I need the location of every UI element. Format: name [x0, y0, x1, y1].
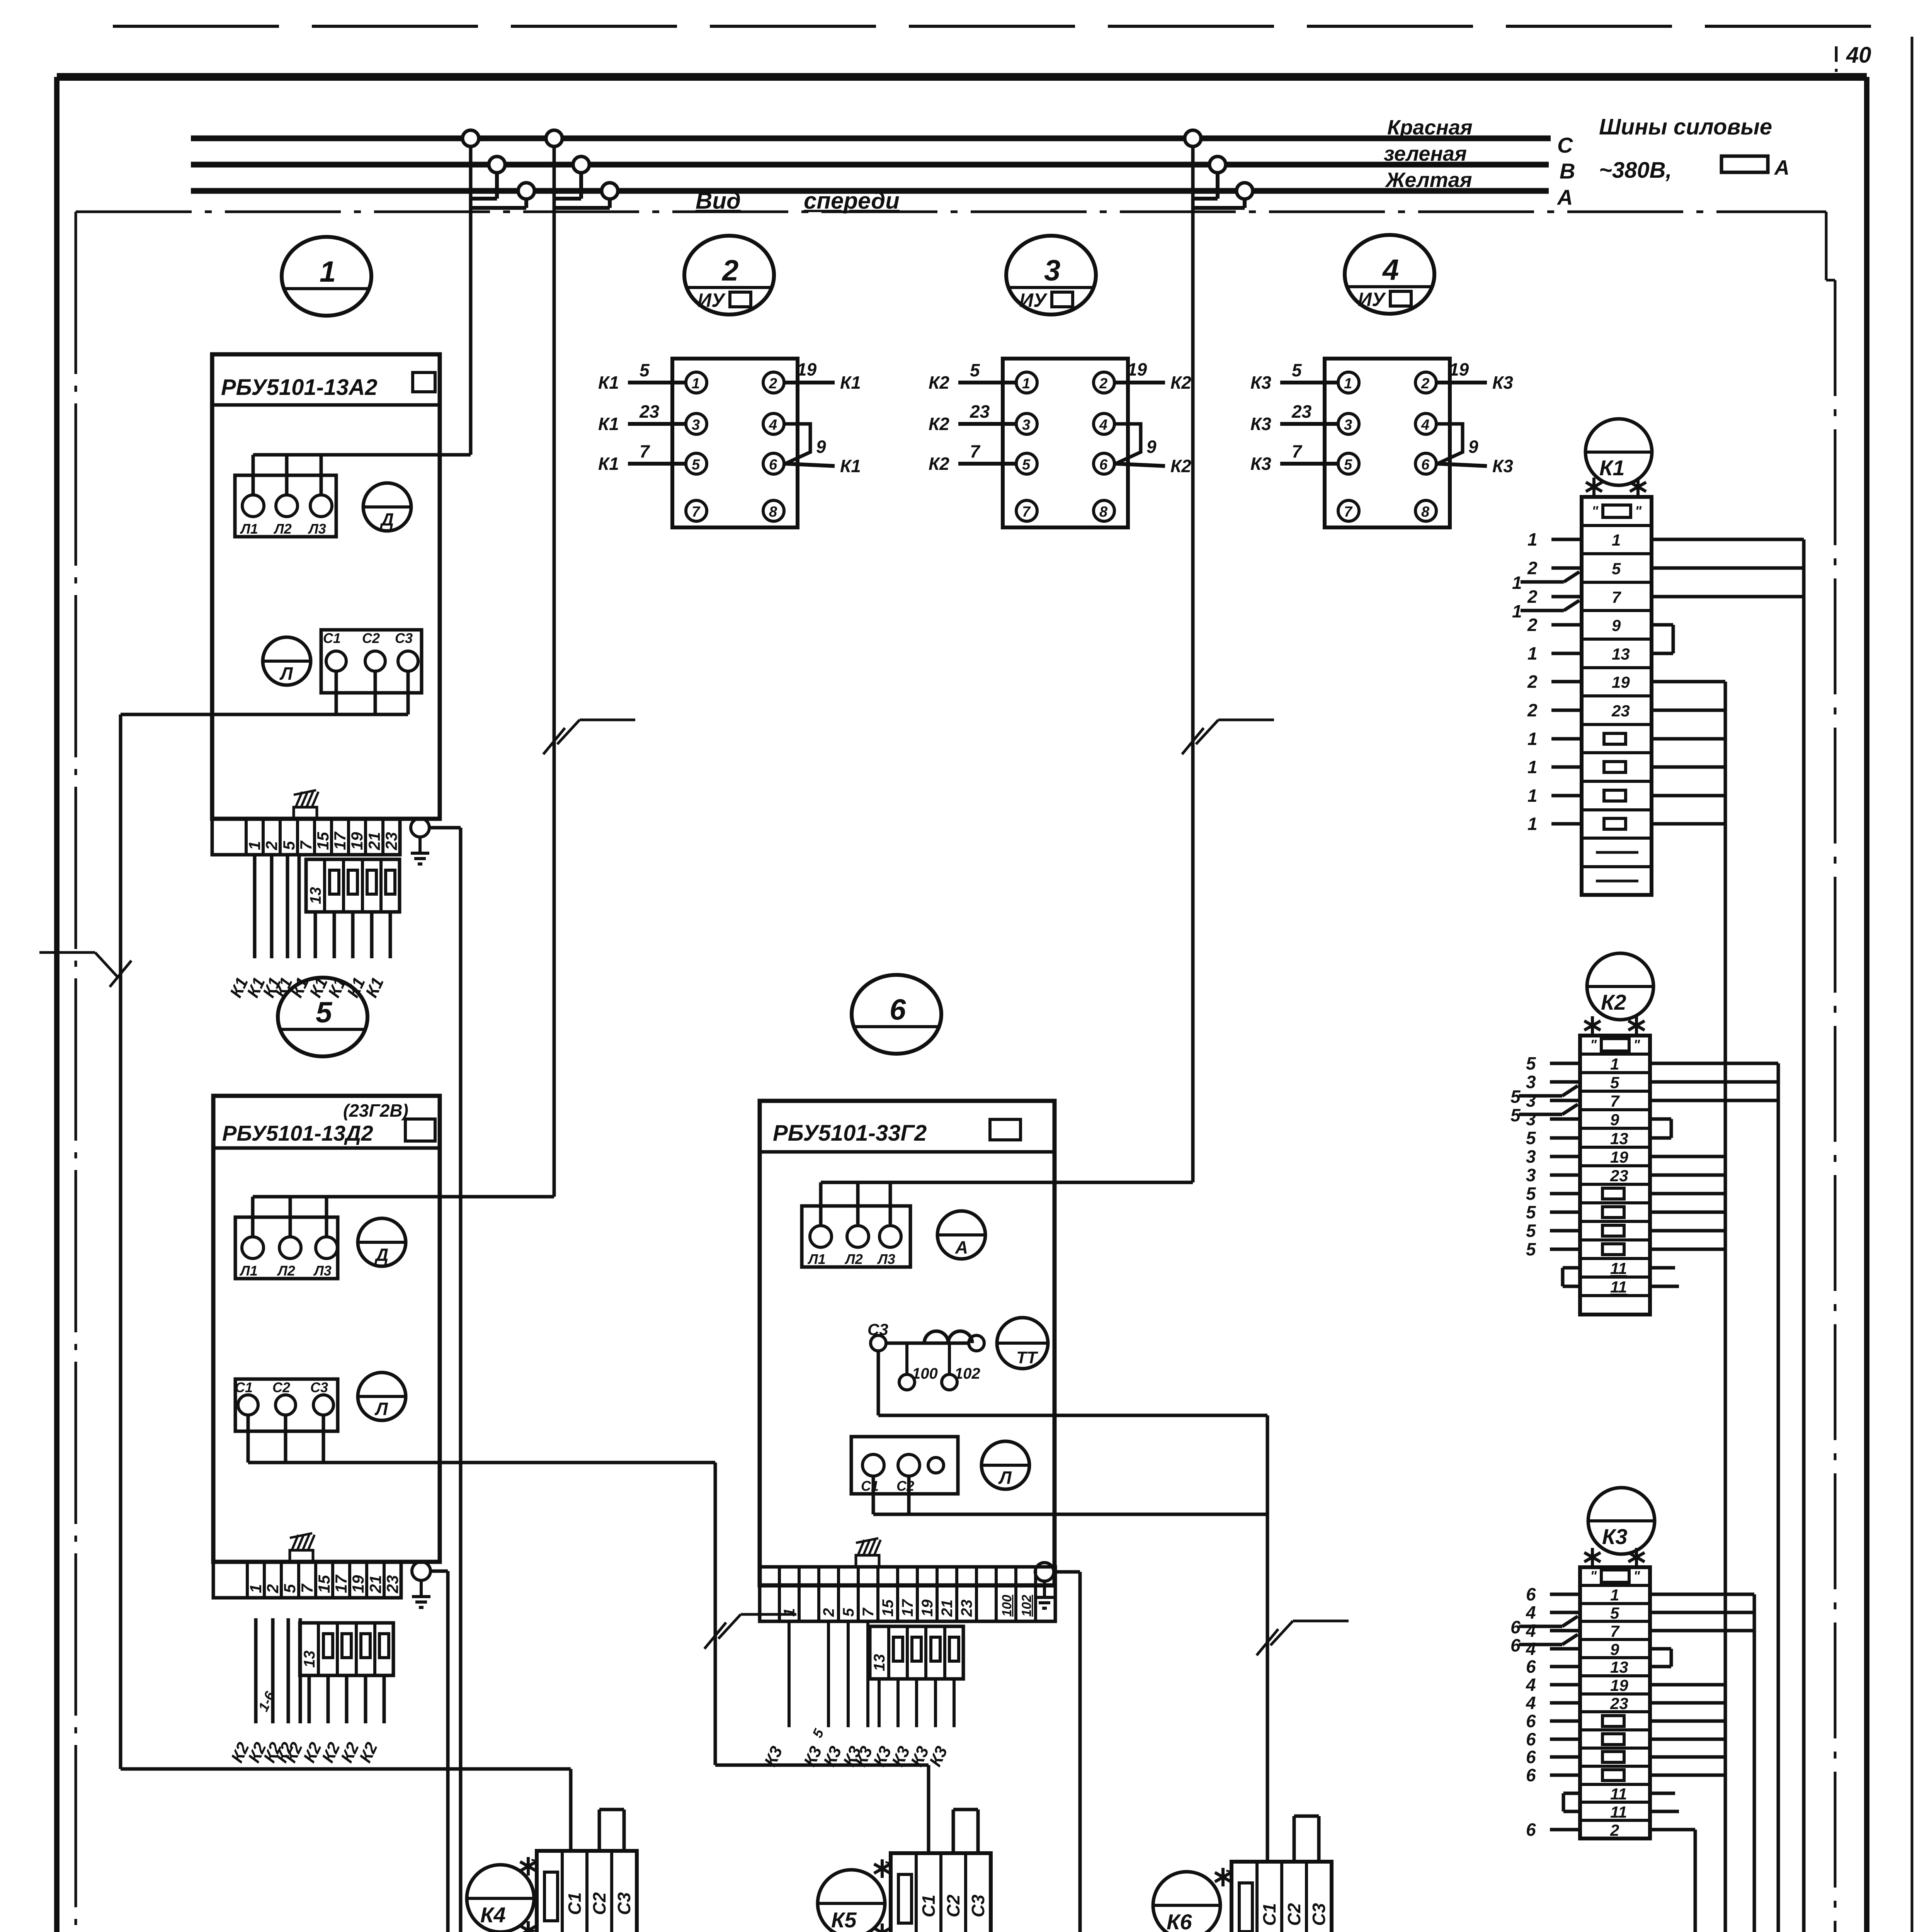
pin 2: [1415, 372, 1436, 393]
wire to pin 3 from К1: [598, 401, 686, 434]
svg-text:4: 4: [1421, 417, 1429, 433]
svg-text:А: А: [1774, 156, 1789, 179]
riser: К3 rows 1,5,7 down to junction box 1: [1609, 1594, 1754, 1932]
terminal block of К4: [529, 1851, 637, 1932]
svg-text:3: 3: [1044, 254, 1060, 287]
svg-text:23: 23: [1610, 1694, 1628, 1713]
label: РБУ5101-33Г2: [773, 1119, 1021, 1146]
cable marker on K6 riser: [1257, 1621, 1349, 1655]
svg-text:6: 6: [1526, 1584, 1536, 1604]
svg-text:К2: К2: [1170, 372, 1191, 393]
svg-text:1: 1: [1612, 531, 1621, 549]
svg-text:19: 19: [1127, 359, 1147, 379]
pin 5: [686, 453, 707, 474]
svg-text:3: 3: [1526, 1165, 1536, 1185]
svg-text:23: 23: [1291, 401, 1312, 422]
svg-text:11: 11: [1610, 1785, 1627, 1803]
svg-text:4: 4: [769, 417, 777, 433]
svg-text:К2: К2: [929, 414, 949, 434]
svg-text:6: 6: [1526, 1765, 1536, 1785]
incoming cable core numbers of К1: [1527, 529, 1582, 834]
pin 4: [1094, 413, 1114, 434]
wire: C-side bus of block U5 to K5 riser: [248, 1416, 715, 1463]
earth terminal of block U5: [412, 1562, 430, 1607]
svg-text:19: 19: [348, 832, 366, 850]
panel outline (dash-dot) top: [76, 211, 1826, 213]
svg-text:1: 1: [320, 255, 336, 288]
wire to pin 5 from К3: [1250, 441, 1338, 474]
svg-text:1: 1: [1344, 376, 1352, 392]
svg-text:1: 1: [692, 376, 700, 392]
svg-text:К1: К1: [1599, 456, 1625, 480]
meter Д of block U5: [358, 1218, 406, 1266]
pin 7: [1016, 500, 1037, 521]
jumper bridging K4 C2-C3: [599, 1810, 624, 1851]
svg-text:К2: К2: [929, 454, 949, 474]
terminal block of К5: [883, 1853, 991, 1932]
svg-text:9: 9: [1610, 1640, 1619, 1658]
svg-text:6: 6: [1526, 1656, 1536, 1677]
svg-text:8: 8: [1421, 504, 1430, 520]
legend: power buses title: [1599, 114, 1772, 183]
terminal tower of К2: [1580, 1036, 1650, 1315]
wire: phase drop from bus C: [469, 146, 473, 455]
svg-text:19: 19: [797, 359, 817, 379]
riser: К1 rows 1,5,7 down to junction box 3: [1788, 539, 1804, 1932]
svg-text:РБУ5101-33Г2: РБУ5101-33Г2: [773, 1121, 927, 1146]
svg-text:7: 7: [1610, 1092, 1620, 1110]
cable marker on left riser: [39, 952, 131, 987]
doubled cable cores of К3: [1510, 1616, 1578, 1655]
wire to pin 5 from К2: [929, 441, 1016, 474]
svg-text:6: 6: [1526, 1711, 1536, 1731]
svg-text:А: А: [955, 1237, 968, 1257]
svg-text:3: 3: [1526, 1090, 1536, 1111]
svg-text:ТТ: ТТ: [1016, 1348, 1038, 1367]
wire to pin 1 from К1: [598, 360, 686, 393]
svg-text:13: 13: [307, 887, 324, 905]
wire: C bus of block U6 to K6 riser: [873, 1476, 1267, 1514]
svg-text:1: 1: [1512, 601, 1522, 621]
svg-text:4: 4: [1526, 1639, 1536, 1659]
svg-text:5: 5: [970, 360, 980, 380]
pin 2: [1094, 372, 1114, 393]
meter ТТ of block U6: [997, 1318, 1048, 1369]
terminal box Л1 Л2 Л3 of block U6: [802, 1206, 910, 1267]
svg-text:5: 5: [1344, 457, 1352, 473]
svg-text:7: 7: [1344, 504, 1353, 520]
cable marker on riser to block 6: [1182, 720, 1274, 754]
wire: feed into K5 C1: [927, 1765, 930, 1853]
svg-text:К1: К1: [840, 456, 861, 476]
connection circle К1: [1585, 419, 1652, 485]
svg-text:зеленая: зеленая: [1384, 142, 1467, 165]
svg-text:2: 2: [1527, 587, 1538, 607]
svg-text:19: 19: [1449, 359, 1469, 379]
node: panel item 3: [1006, 236, 1096, 315]
wires: rows 19..links to trunk: [1650, 1685, 1725, 1775]
stubs rows 11 of К2: [1563, 1268, 1679, 1286]
view caption: Вид спереди: [696, 188, 900, 214]
svg-text:6: 6: [1510, 1635, 1521, 1655]
svg-text:Д: Д: [379, 509, 394, 529]
svg-text:Л1: Л1: [807, 1251, 826, 1267]
svg-text:В: В: [1560, 159, 1575, 183]
pin 3: [1338, 413, 1359, 434]
svg-text:С3: С3: [614, 1892, 634, 1915]
svg-text:К1: К1: [598, 414, 619, 434]
page number 40 (top right): [1846, 43, 1871, 68]
junction dots on buses: [1185, 130, 1253, 199]
svg-text:6: 6: [1526, 1747, 1536, 1767]
svg-text:5: 5: [1526, 1221, 1536, 1241]
svg-text:7: 7: [298, 1583, 316, 1593]
svg-text:5: 5: [1612, 560, 1621, 578]
svg-text:2: 2: [769, 376, 777, 392]
svg-text:Л2: Л2: [844, 1251, 863, 1267]
jumper bracket rows 9-13: [1652, 625, 1673, 653]
svg-text:Л3: Л3: [313, 1263, 332, 1279]
svg-text:8: 8: [1099, 504, 1108, 520]
svg-text:1: 1: [1527, 786, 1538, 806]
svg-text:2: 2: [1610, 1821, 1619, 1839]
panel outline (dash-dot) left: [75, 212, 77, 1932]
terminal strip of block U5: [213, 1562, 401, 1598]
sheet top trim dashed line: [113, 25, 1874, 28]
svg-text:": ": [1590, 1037, 1597, 1053]
svg-text:7: 7: [860, 1607, 877, 1617]
svg-text:23: 23: [958, 1600, 975, 1617]
svg-text:С2: С2: [272, 1379, 290, 1395]
wire: row 1 to riser: [1652, 538, 1804, 541]
bus A (yellow phase): [191, 188, 1549, 194]
additional-terminals asterisks of К5: [874, 1859, 890, 1932]
additional-terminals asterisks of К4: [520, 1857, 536, 1932]
demount mark above strip U1: [294, 790, 318, 819]
svg-text:2: 2: [262, 841, 281, 850]
connector body: [1325, 359, 1450, 527]
svg-text:К3: К3: [1492, 456, 1513, 476]
svg-text:2: 2: [1527, 672, 1538, 692]
svg-text:102: 102: [954, 1365, 980, 1382]
svg-text:100: 100: [1000, 1595, 1014, 1617]
doubled cable cores of К1: [1512, 572, 1579, 621]
svg-text:6: 6: [1526, 1820, 1536, 1840]
svg-text:3: 3: [1526, 1072, 1536, 1092]
svg-text:2: 2: [1527, 615, 1538, 635]
svg-text:2: 2: [1527, 700, 1538, 720]
short marks in empty bottom rows of К1: [1596, 852, 1638, 881]
svg-text:9: 9: [1146, 437, 1157, 457]
svg-text:3: 3: [1526, 1109, 1536, 1129]
incoming cable core numbers of К3: [1526, 1584, 1580, 1840]
cable marker on riser to block 5: [543, 720, 635, 754]
additional-terminals asterisks of К3: [1584, 1548, 1645, 1566]
wire to pin 3 from К2: [929, 401, 1016, 434]
svg-text:5: 5: [316, 996, 333, 1029]
pin 1: [686, 372, 707, 393]
svg-text:7: 7: [692, 504, 701, 520]
svg-text:С2: С2: [943, 1895, 963, 1917]
pin 6: [1415, 453, 1436, 474]
svg-text:Л2: Л2: [273, 521, 292, 537]
earth terminal of block U6: [1035, 1563, 1054, 1608]
svg-text:19: 19: [1610, 1676, 1628, 1694]
stubs rows 11 of К3: [1563, 1793, 1679, 1811]
svg-text:13: 13: [871, 1654, 888, 1672]
wire: feeder bus into block U1: [253, 455, 471, 496]
svg-text:5: 5: [640, 360, 650, 380]
svg-text:2: 2: [1099, 376, 1107, 392]
incoming cable core numbers of К2: [1526, 1053, 1580, 1259]
svg-text:23: 23: [1610, 1167, 1628, 1185]
svg-text:ИУ: ИУ: [697, 289, 726, 311]
svg-text:5: 5: [1526, 1202, 1536, 1222]
panel outline jog top-right: [1826, 212, 1835, 280]
svg-text:100: 100: [912, 1365, 938, 1382]
svg-text:Желтая: Желтая: [1385, 168, 1472, 192]
label: РБУ5101-13Д2: [222, 1119, 435, 1145]
svg-text:2: 2: [721, 254, 738, 287]
svg-text:ИУ: ИУ: [1358, 289, 1386, 310]
wires: rows 19..links to trunk: [1652, 682, 1725, 824]
relay circle К6: [1153, 1872, 1220, 1932]
svg-text:7: 7: [1292, 441, 1303, 461]
svg-text:5: 5: [1022, 457, 1031, 473]
svg-text:5: 5: [840, 1608, 857, 1617]
svg-text:23: 23: [970, 401, 990, 422]
terminal strip of block U1: [212, 819, 400, 855]
svg-text:17: 17: [899, 1599, 916, 1617]
jumper pin 4 to pin 6 (terminal 9): [1114, 424, 1157, 464]
svg-text:Л3: Л3: [308, 521, 326, 537]
node: panel item 2: [684, 236, 774, 315]
pin 5: [1016, 453, 1037, 474]
wire: feed into K4 C1: [121, 1769, 571, 1851]
svg-text:23: 23: [383, 1575, 401, 1594]
svg-text:11: 11: [1610, 1259, 1627, 1277]
relay circle К5: [818, 1870, 885, 1932]
wires: block U1 outgoing К1 conductors: [226, 855, 390, 1000]
svg-text:К3: К3: [1250, 454, 1271, 474]
svg-text:Шины силовые: Шины силовые: [1599, 114, 1772, 139]
wires: block U6 outgoing К3 conductors: [761, 1621, 954, 1769]
pin 2: [763, 372, 784, 393]
wire from pin 2 to К3: [1436, 359, 1513, 393]
svg-text:2: 2: [1527, 558, 1538, 578]
additional-terminals asterisks of К1: [1586, 478, 1646, 496]
svg-text:1: 1: [1610, 1055, 1619, 1073]
wires: rows 19..links to trunk: [1650, 1156, 1725, 1249]
jumper pin 4 to pin 6 (terminal 9): [784, 424, 826, 464]
svg-text:5: 5: [1292, 360, 1302, 380]
svg-text:6: 6: [1526, 1729, 1536, 1749]
svg-text:1: 1: [1527, 729, 1538, 749]
svg-text:С1: С1: [919, 1895, 939, 1917]
connection circle К2: [1587, 953, 1653, 1020]
jumper bracket rows 9-13: [1650, 1119, 1671, 1138]
svg-text:8: 8: [769, 504, 777, 520]
svg-text:6: 6: [1099, 457, 1108, 473]
svg-text:5: 5: [280, 841, 298, 850]
svg-text:Л: Л: [998, 1468, 1012, 1488]
terminal strip of block U6: [760, 1567, 1055, 1621]
wire: C-side bus of block U1 to left riser: [121, 671, 408, 714]
wire: earth of U6 down to zero bus: [1054, 1572, 1080, 1932]
svg-text:7: 7: [640, 441, 650, 461]
svg-text:спереди: спереди: [804, 188, 900, 214]
svg-text:15: 15: [879, 1599, 896, 1617]
wire: С3 tap down and right to K6 riser: [878, 1351, 1267, 1415]
svg-text:5: 5: [692, 457, 700, 473]
terminal box С1 С2 С3 of block U1: [321, 630, 422, 693]
pin 7: [686, 500, 707, 521]
svg-text:4: 4: [1526, 1602, 1536, 1622]
svg-text:19: 19: [1612, 673, 1630, 691]
svg-text:7: 7: [1022, 504, 1031, 520]
bus phase letters C B A: [1556, 133, 1575, 209]
wire: phase drop from bus C: [1191, 146, 1195, 1182]
svg-text:13: 13: [1610, 1129, 1628, 1148]
svg-text:Д: Д: [374, 1245, 388, 1265]
svg-text:": ": [1590, 1568, 1597, 1584]
wire: К3 row 2 outgoing: [1650, 1830, 1695, 1932]
svg-text:(23Г2В): (23Г2В): [343, 1100, 408, 1121]
svg-text:11: 11: [1610, 1278, 1627, 1296]
svg-text:": ": [529, 1859, 546, 1866]
svg-text:102: 102: [1019, 1595, 1034, 1617]
wire: feeder bus into block U6: [821, 1182, 1193, 1224]
node: panel item 5: [278, 978, 367, 1056]
wire: riser down then to K5: [715, 1463, 929, 1853]
svg-text:13: 13: [1612, 645, 1630, 663]
riser: К2 rows 1,5,7 down to junction box 2: [1706, 1063, 1778, 1932]
svg-text:21: 21: [939, 1600, 956, 1617]
terminal box Л1 Л2 Л3 of block U5: [235, 1217, 338, 1279]
svg-text:К2: К2: [929, 372, 949, 393]
svg-text:7: 7: [297, 840, 315, 850]
svg-text:К1: К1: [840, 372, 861, 393]
wire to pin 1 from К2: [929, 360, 1016, 393]
terminal box Л1 Л2 Л3 of block U1: [235, 475, 336, 537]
svg-text:": ": [883, 1861, 900, 1869]
wire to pin 5 from К1: [598, 441, 686, 474]
auxiliary jumper strip of block U5: [300, 1623, 393, 1675]
svg-text:3: 3: [1526, 1146, 1536, 1167]
current transformer tap С3 of block U6: [867, 1320, 984, 1390]
svg-text:5: 5: [1526, 1053, 1536, 1073]
junction dots on buses: [463, 130, 534, 199]
svg-text:5: 5: [1526, 1239, 1536, 1259]
block U5: starter РБУ5101-13Д2 body: [213, 1096, 440, 1562]
svg-text:РБУ5101-13Д2: РБУ5101-13Д2: [222, 1121, 373, 1145]
wires: block U5 outgoing К2 conductors: [228, 1618, 384, 1765]
additional-terminals asterisks of К6: [1215, 1868, 1231, 1932]
wires: rows 5,7 to riser: [1650, 1612, 1754, 1631]
svg-text:1: 1: [1610, 1586, 1619, 1604]
pin 1: [1338, 372, 1359, 393]
svg-text:3: 3: [692, 417, 700, 433]
terminal block of К6: [1223, 1862, 1332, 1932]
pin 8: [1415, 500, 1436, 521]
svg-text:13: 13: [1610, 1658, 1628, 1676]
svg-text:9: 9: [1610, 1111, 1619, 1129]
legend: bus cross-section symbol: [1721, 156, 1789, 179]
pin 4: [763, 413, 784, 434]
svg-text:5: 5: [1610, 1604, 1619, 1622]
svg-text:4: 4: [1099, 417, 1107, 433]
svg-text:К1: К1: [598, 372, 619, 393]
node: panel item 6: [852, 975, 941, 1054]
svg-text:К2: К2: [1601, 990, 1626, 1014]
node: panel item 4: [1345, 235, 1434, 314]
wire: row 1 to riser: [1650, 1062, 1778, 1065]
pin 4: [1415, 413, 1436, 434]
wire to pin 1 from К3: [1250, 360, 1338, 393]
svg-text:40: 40: [1846, 43, 1871, 68]
meter Л of block U1: [263, 637, 311, 685]
wire from pin 2 to К1: [784, 359, 861, 393]
label: (23Г2В): [343, 1100, 408, 1121]
svg-text:5: 5: [1510, 1105, 1521, 1125]
svg-text:": ": [529, 1929, 546, 1932]
svg-text:9: 9: [816, 437, 826, 457]
wire: phase drop from bus A: [1193, 199, 1245, 208]
earth terminal of block U1: [411, 818, 429, 864]
svg-text:3: 3: [1344, 417, 1352, 433]
svg-text:С2: С2: [589, 1892, 609, 1915]
wire: phase drop from bus A: [471, 199, 526, 208]
relay circle К4: [467, 1865, 534, 1932]
svg-text:5: 5: [1610, 1073, 1619, 1092]
terminal box С1 С2 С3 of block U5: [235, 1379, 338, 1431]
svg-text:~380В,: ~380В,: [1599, 158, 1672, 183]
wires: rows 5,7 to riser: [1650, 1082, 1778, 1100]
svg-text:С3: С3: [1309, 1903, 1329, 1926]
svg-text:5: 5: [281, 1584, 299, 1593]
svg-text:Л: Л: [374, 1399, 388, 1419]
wire: feeder bus into block U5: [253, 1197, 554, 1238]
svg-text:23: 23: [639, 401, 660, 422]
svg-text:21: 21: [366, 1575, 384, 1594]
svg-text:13: 13: [301, 1651, 318, 1668]
svg-text:1: 1: [1022, 376, 1030, 392]
panel outline (dash-dot) right: [1835, 46, 1836, 1932]
svg-text:Красная: Красная: [1387, 116, 1473, 139]
svg-text:С1: С1: [861, 1478, 879, 1494]
svg-text:К3: К3: [1250, 414, 1271, 434]
wire: earth of U1 to right riser: [429, 828, 498, 1932]
svg-text:2: 2: [1421, 376, 1429, 392]
svg-text:Л: Л: [279, 663, 293, 684]
svg-text:Л1: Л1: [239, 1263, 258, 1279]
svg-text:К3: К3: [1492, 372, 1513, 393]
connector body: [672, 359, 798, 527]
wire: phase drop from bus A: [554, 199, 610, 208]
svg-text:6: 6: [1510, 1617, 1521, 1637]
bus labels: wire colours: [1384, 116, 1473, 192]
svg-text:К3: К3: [1602, 1524, 1628, 1549]
svg-text:15: 15: [315, 1575, 333, 1593]
svg-text:А: А: [1556, 185, 1573, 209]
svg-text:С1: С1: [1259, 1903, 1279, 1926]
svg-text:К4: К4: [480, 1903, 506, 1927]
svg-text:17: 17: [332, 1575, 350, 1593]
wire: left riser down to K4 feed: [119, 714, 122, 1769]
trunk riser down to relay cabinet circle: [1517, 682, 1725, 1932]
svg-text:": ": [1592, 503, 1599, 519]
bus B (green phase): [191, 162, 1549, 168]
